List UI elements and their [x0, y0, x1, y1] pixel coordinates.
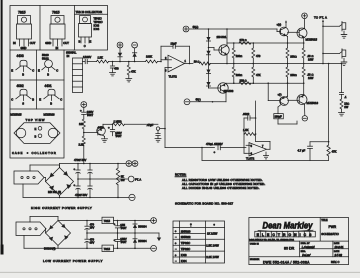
node pad — [156, 127, 159, 130]
svg-text:2N4403: 2N4403 — [224, 89, 234, 93]
svg-text:TITLE: TITLE — [321, 220, 328, 222]
svg-text:GND: GND — [21, 46, 27, 50]
svg-text:PT. A: PT. A — [135, 177, 141, 181]
svg-text:TAB IS COLLECTOR: TAB IS COLLECTOR — [76, 10, 102, 14]
svg-text:USED IN: USED IN — [250, 243, 259, 245]
svg-text:TANT: TANT — [115, 135, 122, 138]
svg-text:MJ15016: MJ15016 — [307, 101, 319, 105]
svg-text:TL072: TL072 — [169, 75, 178, 79]
jack J3 speaker — [323, 49, 347, 66]
svg-text:HIGH CURRENT POWER SUPPLY: HIGH CURRENT POWER SUPPLY — [31, 206, 92, 210]
feedback section — [165, 101, 270, 160]
svg-text:C: C — [60, 98, 62, 102]
resistor 1.5K — [97, 56, 146, 63]
node TO PT. A — [314, 16, 327, 65]
svg-text:NUMBER: NUMBER — [250, 259, 260, 261]
terminal + supply mute — [81, 102, 87, 108]
terminal -15V out — [151, 245, 157, 251]
svg-text:↑(-): ↑(-) — [278, 92, 282, 96]
resistor 1.5K servo — [243, 128, 256, 135]
svg-text:CASE: CASE — [12, 151, 23, 155]
svg-text:E: E — [35, 127, 37, 131]
svg-text:TIP32C: TIP32C — [94, 20, 103, 24]
svg-text:6: 6 — [251, 153, 253, 156]
svg-text:C: C — [56, 69, 58, 73]
svg-text:IN4004: IN4004 — [138, 224, 147, 228]
capacitor 470 25V upper — [85, 221, 95, 234]
svg-text:10K: 10K — [79, 122, 84, 126]
svg-text:B: B — [22, 72, 24, 76]
bridge rectifier IN4004 — [44, 221, 71, 251]
terminal V+ — [183, 25, 198, 32]
svg-text:47K: 47K — [256, 73, 261, 77]
wire lower emitter rail — [226, 82, 304, 84]
wire - rail — [23, 193, 129, 198]
resistor 47K to ground — [127, 61, 136, 79]
svg-text:2N5320: 2N5320 — [181, 229, 191, 233]
svg-text:†: † — [190, 223, 192, 227]
svg-text:+: + — [108, 126, 110, 130]
svg-text:TIP31C: TIP31C — [181, 241, 190, 245]
opamp1 section — [160, 42, 341, 79]
resistor 47K zobel — [327, 142, 337, 161]
resistor 100 ohm driver upper — [286, 48, 297, 67]
terminal +40V pair — [126, 161, 138, 167]
svg-text:5: 5 — [251, 145, 253, 148]
wire center tap PT.A — [78, 178, 128, 180]
svg-text:+: + — [175, 241, 177, 245]
svg-text:TOP VIEW: TOP VIEW — [26, 118, 46, 122]
op-amp U1A TL072 — [165, 55, 187, 78]
svg-text:IN4004: IN4004 — [138, 239, 147, 243]
svg-text:✱(-): ✱(-) — [196, 97, 201, 101]
resistor 5K 5W bleeder — [116, 164, 125, 198]
svg-text:2N5322: 2N5322 — [181, 235, 191, 239]
svg-text:TANT: TANT — [120, 227, 127, 230]
op-amp U1B TL072 — [246, 143, 267, 161]
svg-text:TANT: TANT — [87, 114, 94, 117]
wire inverting input riser — [244, 134, 249, 153]
svg-text:DWE 552-014A / 552-038A: DWE 552-014A / 552-038A — [263, 260, 310, 264]
svg-text:ENG.: ENG. — [301, 251, 307, 253]
wire (+) stub — [277, 20, 288, 27]
regulator 7815 — [102, 217, 114, 223]
wire mute emitter — [102, 135, 108, 142]
connector P1 mains — [14, 171, 44, 184]
ground — [110, 73, 116, 76]
parts table — [173, 221, 225, 263]
svg-text:LOW CURRENT POWER SUPPLY: LOW CURRENT POWER SUPPLY — [43, 259, 103, 263]
transistor driver Q3 TIP31C — [277, 27, 288, 36]
mute circuit — [79, 68, 170, 164]
capacitor 100uF bias — [274, 105, 297, 125]
wire (-) stub — [278, 92, 288, 97]
svg-text:REV. C: REV. C — [331, 260, 340, 264]
transistor driver Q4 TIP32C — [280, 96, 289, 105]
svg-text:470: 470 — [256, 54, 261, 58]
wire - rail low — [58, 246, 102, 250]
wire input to inverting pin — [160, 60, 168, 63]
bridge rectifier MR501 — [46, 168, 74, 196]
svg-text:3484 ARNOLD RD. SALINA, KS. (9: 3484 ARNOLD RD. SALINA, KS. (913)823-750… — [249, 238, 294, 241]
svg-text:E: E — [39, 98, 41, 102]
svg-text:*: * — [214, 224, 216, 228]
zobel network top wire — [310, 141, 329, 143]
svg-text:↑(+): ↑(+) — [277, 23, 282, 27]
svg-text:47K: 47K — [332, 149, 337, 153]
svg-text:1.5K: 1.5K — [98, 56, 104, 60]
svg-text:MJ15015: MJ15015 — [11, 113, 23, 117]
ground stub opamp2 — [246, 148, 269, 159]
capacitor 4700uF B — [88, 164, 92, 198]
svg-text:IC03: IC03 — [94, 24, 100, 28]
wire opamp1 pin3 riser — [160, 68, 169, 129]
capacitor 470 to ground — [110, 61, 119, 73]
capacitor 4.7uF — [298, 142, 313, 161]
svg-text:Dean Markley: Dean Markley — [263, 221, 314, 231]
wire V- to Q2 — [190, 101, 226, 103]
svg-text:.33 Ω: .33 Ω — [307, 54, 313, 58]
svg-text:COLLECTOR: COLLECTOR — [32, 151, 57, 155]
svg-text:DeLuc′: DeLuc′ — [302, 253, 311, 257]
diode clamp to +15V — [118, 48, 122, 62]
svg-text:2N4401: 2N4401 — [217, 35, 227, 39]
wire top rail — [189, 28, 277, 30]
wire plug to bridge — [23, 165, 60, 197]
svg-text:B: B — [35, 134, 37, 138]
title block — [249, 218, 349, 265]
transistor Q5 4403 — [84, 125, 105, 135]
svg-text:.47µF: .47µF — [147, 123, 154, 127]
svg-text:1/100V: 1/100V — [83, 55, 91, 59]
input section — [66, 42, 161, 92]
svg-text:ELECTRONICS: ELECTRONICS — [257, 233, 315, 237]
svg-text:TIP32C: TIP32C — [181, 247, 190, 251]
zobel bottom wire to feedback — [202, 159, 329, 161]
wire servo output loop — [255, 101, 270, 149]
resistor 100K — [146, 55, 162, 63]
svg-text:4403: 4403 — [17, 54, 24, 58]
svg-text:+: + — [74, 167, 76, 171]
regulator 7915 — [102, 245, 114, 251]
ground — [155, 139, 161, 142]
ground — [157, 233, 161, 241]
resistor 10K — [79, 119, 85, 136]
capacitor .1 on jack — [339, 63, 347, 99]
svg-text:.33 Ω: .33 Ω — [307, 72, 313, 76]
svg-text:10W: 10W — [308, 58, 314, 62]
svg-text:TIP3lC: TIP3lC — [94, 17, 102, 21]
svg-text:IN: IN — [13, 41, 16, 45]
svg-text:1K 1/2W: 1K 1/2W — [207, 232, 218, 236]
svg-text:MR 501 (4): MR 501 (4) — [48, 190, 61, 194]
svg-text:100K: 100K — [146, 55, 152, 59]
svg-text:7815: 7815 — [104, 219, 111, 223]
capacitor .0022 servo — [243, 112, 256, 134]
svg-text:100Ω: 100Ω — [236, 73, 242, 77]
svg-text:C: C — [11, 98, 13, 102]
svg-text:7915: 7915 — [52, 11, 60, 15]
wire + output — [114, 220, 151, 222]
terminal collector supply — [302, 13, 308, 28]
driver emitter rail — [286, 36, 288, 65]
svg-text:TO PT. A: TO PT. A — [314, 16, 327, 20]
svg-text:S: S — [22, 101, 24, 105]
connector J1 signal in — [66, 50, 83, 92]
svg-text:100Ω: 100Ω — [290, 54, 296, 58]
capacitor 1/35 TANT upper — [114, 221, 127, 234]
resistor 10 ohm — [190, 59, 211, 65]
wire upper emitter rail — [227, 29, 304, 44]
resistor 470 upper — [252, 43, 261, 64]
svg-text:NOTES:: NOTES: — [175, 173, 186, 177]
wire output rail down — [328, 63, 330, 142]
svg-text:4401: 4401 — [45, 84, 52, 88]
svg-text:C: C — [84, 44, 86, 48]
svg-text:2-7-92: 2-7-92 — [334, 253, 343, 257]
resistor 100 ohm upper left — [232, 43, 242, 64]
svg-text:OUT: OUT — [63, 41, 69, 45]
svg-text:4700/ 50V: 4700/ 50V — [75, 193, 87, 197]
output stage — [202, 13, 349, 160]
connector P2 — [16, 222, 46, 236]
wire + rail — [60, 158, 127, 167]
transistor 4092 pinout — [11, 84, 34, 105]
diode clamp to -15V — [132, 48, 136, 62]
svg-text:470: 470 — [114, 66, 119, 70]
wire main mid rail — [210, 63, 342, 65]
svg-text:10-2-91: 10-2-91 — [335, 245, 344, 249]
svg-text:7: 7 — [262, 145, 264, 148]
svg-text:B: B — [32, 98, 34, 102]
low current supply — [16, 217, 161, 264]
svg-text:B: B — [50, 101, 52, 105]
transistor MJ15015 — [288, 28, 318, 41]
terminal V- — [184, 97, 201, 104]
resistor 2.2K — [79, 136, 86, 164]
svg-text:E: E — [11, 69, 13, 73]
diode IN4004 upper — [133, 221, 147, 234]
resistor 220 ohm — [239, 79, 251, 85]
svg-text:10 Ω: 10 Ω — [194, 59, 200, 63]
svg-text:+: + — [74, 183, 76, 187]
svg-text:B: B — [79, 40, 81, 44]
svg-text:IC03: IC03 — [181, 253, 187, 257]
regulator 7815 pinout — [13, 11, 36, 50]
svg-text:−: − — [175, 235, 177, 239]
svg-text:SCHEMATIC FOR BOARD NO. 580: SCHEMATIC FOR BOARD NO. 580-027 — [175, 201, 234, 205]
wire plug to bridge — [24, 217, 58, 249]
svg-text:25V: 25V — [90, 241, 95, 244]
terminal +15V out — [151, 218, 157, 224]
reference panel — [10, 6, 108, 159]
capacitor 1/100V — [83, 55, 97, 64]
terminal negative collector — [302, 104, 307, 121]
svg-text:C: C — [32, 69, 34, 73]
wire to lower driver base — [268, 83, 280, 100]
diode IN4004 lower — [133, 233, 147, 248]
terminal +15V — [117, 42, 123, 48]
svg-text:IC04: IC04 — [181, 259, 187, 263]
wire opamp output — [185, 63, 190, 65]
wire + rail low — [58, 220, 102, 222]
capacitor 470 25V lower — [85, 233, 95, 248]
ground — [126, 79, 132, 82]
transistor 4403 pinout — [11, 54, 34, 76]
ground — [339, 113, 345, 116]
transistor Q2 2N4403 — [209, 83, 234, 102]
svg-text:B: B — [47, 72, 49, 76]
svg-text:E: E — [90, 40, 92, 44]
svg-text:−: − — [175, 247, 177, 251]
wire servo input — [165, 147, 215, 149]
svg-text:SCHEMATIC: SCHEMATIC — [321, 232, 339, 236]
wire - output — [114, 248, 151, 250]
resistor 1 MEG — [103, 119, 158, 127]
svg-text:4700/ 50V: 4700/ 50V — [74, 158, 86, 162]
svg-text:IN: IN — [67, 54, 70, 58]
capacitor 4700uF A — [74, 164, 81, 198]
svg-text:DWG. BY: DWG. BY — [301, 243, 311, 245]
svg-text:4092: 4092 — [17, 84, 24, 88]
svg-text:.1: .1 — [344, 95, 347, 99]
wire feedback riser — [201, 147, 203, 161]
svg-text:7915: 7915 — [104, 247, 111, 251]
wire pad to servo — [164, 128, 166, 148]
svg-text:ALL DIODES IN4148 UNLESS O: ALL DIODES IN4148 UNLESS OTHERWISE NOTED… — [182, 186, 260, 190]
svg-text:80 DR: 80 DR — [284, 247, 295, 251]
svg-text:✱(+): ✱(+) — [193, 25, 199, 29]
notes — [175, 173, 265, 206]
vas section — [183, 25, 304, 105]
resistor .33 ohm upper — [302, 38, 314, 68]
svg-text:7815: 7815 — [18, 11, 26, 15]
resistor .33 ohm lower — [302, 67, 314, 96]
resistor 47K lower — [252, 64, 261, 84]
svg-text:25V: 25V — [90, 226, 95, 229]
terminal PT.A — [128, 176, 141, 182]
svg-text:1W: 1W — [344, 105, 348, 109]
high current supply — [14, 158, 141, 210]
svg-text:270 Ω: 270 Ω — [240, 38, 247, 42]
terminal -40V — [129, 194, 135, 200]
svg-text:100Ω: 100Ω — [236, 54, 242, 58]
resistor 22 ohm 1W — [340, 99, 349, 113]
svg-text:OUT: OUT — [30, 41, 36, 45]
capacitor 1/35 TANT lower — [114, 233, 127, 248]
svg-text:1.5K 1/4W: 1.5K 1/4W — [206, 243, 219, 247]
svg-text:1: 1 — [185, 60, 187, 63]
svg-text:47K: 47K — [131, 70, 136, 74]
jack J2 speaker — [323, 22, 347, 39]
capacitor 10pF feedback — [161, 42, 190, 65]
resistor 100 ohm lower left — [232, 64, 242, 84]
wire ground mid rail — [86, 232, 159, 234]
svg-text:IC04: IC04 — [94, 27, 100, 31]
resistor 270 ohm — [239, 38, 251, 44]
transistor 5320/5322 pinout — [38, 53, 58, 77]
svg-text:5W: 5W — [121, 178, 125, 182]
svg-text:GND: GND — [45, 41, 51, 45]
svg-text:DATE: DATE — [334, 242, 340, 245]
svg-text:PWR: PWR — [329, 225, 337, 229]
terminal -15V — [132, 42, 138, 48]
svg-text:+: + — [80, 108, 82, 112]
svg-text:E: E — [38, 69, 40, 73]
MJ15015/MJ15016 TO-3 top view — [11, 113, 61, 156]
svg-text:TANT: TANT — [120, 241, 127, 244]
diode chain D1-D4 — [206, 29, 210, 88]
svg-text:100µF: 100µF — [275, 116, 283, 119]
resistor 100 ohm driver lower — [286, 67, 297, 97]
svg-text:+: + — [175, 229, 177, 233]
svg-text:4.7 µF: 4.7 µF — [298, 149, 306, 153]
svg-text:IN: IN — [56, 46, 59, 50]
svg-text:DATE: DATE — [334, 250, 340, 253]
svg-text:−: − — [175, 259, 177, 263]
transistor 4401 pinout — [39, 84, 62, 105]
svg-text:2: 2 — [165, 57, 167, 60]
capacitor 1/35V TANT — [80, 107, 94, 119]
transistor MJ15016 — [288, 95, 319, 105]
svg-text:2.2K 1/4W: 2.2K 1/4W — [206, 255, 219, 259]
svg-text:5K: 5K — [121, 174, 124, 178]
TIP31C/TIP32C pinout — [75, 10, 108, 48]
svg-text:+: + — [214, 150, 216, 154]
capacitor 1/35V TANT second — [108, 124, 122, 139]
svg-text:100Ω: 100Ω — [290, 73, 296, 77]
svg-text:MJ15016: MJ15016 — [44, 113, 56, 117]
svg-text:IN4004(4): IN4004(4) — [44, 247, 56, 251]
capacitor 470uF 15/25V — [206, 142, 246, 154]
svg-text:22Ω: 22Ω — [344, 102, 349, 106]
svg-text:L.Oshwald: L.Oshwald — [302, 245, 315, 249]
transistor Q1 2N4401 — [209, 29, 230, 64]
svg-text:MJ15015: MJ15015 — [306, 37, 318, 41]
svg-text:+: + — [175, 253, 177, 257]
svg-text:10µF: 10µF — [171, 42, 177, 46]
regulator 7915 pinout — [45, 11, 69, 50]
panel frame — [10, 6, 108, 159]
capacitor .47uF — [147, 123, 161, 139]
svg-text:TL072: TL072 — [246, 156, 255, 160]
svg-text:.0022: .0022 — [243, 112, 250, 116]
svg-text:10W: 10W — [308, 76, 314, 80]
